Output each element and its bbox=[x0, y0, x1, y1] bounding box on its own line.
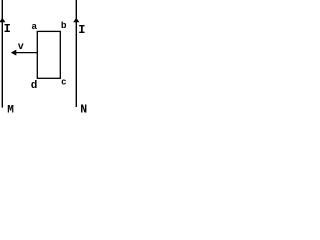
velocity arrowhead bbox=[11, 50, 16, 56]
wire N (right rail) bbox=[75, 0, 77, 107]
current arrow on wire N bbox=[73, 18, 79, 23]
current arrow on wire M bbox=[0, 18, 5, 23]
velocity arrow v (wire) bbox=[13, 52, 37, 54]
svg-text:M: M bbox=[7, 105, 14, 114]
svg-text:c: c bbox=[61, 77, 66, 87]
svg-text:I: I bbox=[4, 22, 11, 36]
svg-text:a: a bbox=[31, 21, 37, 32]
svg-text:I: I bbox=[78, 23, 85, 37]
wire M (left rail) bbox=[1, 0, 3, 108]
svg-text:N: N bbox=[80, 104, 87, 115]
svg-text:b: b bbox=[61, 20, 67, 31]
loop abcd (rectangle) bbox=[37, 31, 60, 78]
svg-text:d: d bbox=[31, 80, 38, 92]
svg-text:v: v bbox=[18, 42, 24, 53]
